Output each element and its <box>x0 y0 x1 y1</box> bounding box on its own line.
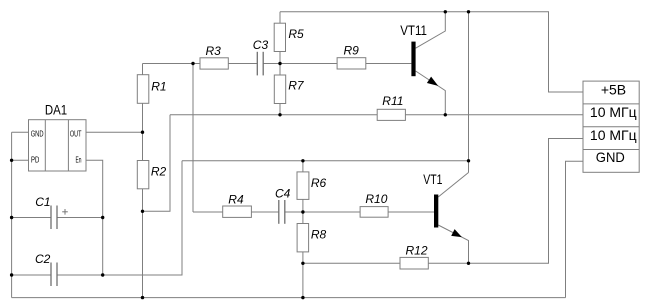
svg-text:PD: PD <box>31 154 39 164</box>
wire VT11 emitter down to 10MHz#1 line <box>416 71 446 115</box>
wire vertical x=193 from top base line to lower base line <box>192 64 194 213</box>
wire C2 right lead to riser x=182 <box>57 161 182 275</box>
C1 polarity plus sign <box>62 209 68 215</box>
svg-text:VT1: VT1 <box>423 172 442 187</box>
svg-text:R7: R7 <box>288 79 305 93</box>
capacitor C3 plates <box>257 52 263 76</box>
resistor R8 <box>297 224 309 252</box>
wire R3 to C3 left plate <box>228 63 257 65</box>
resistor R10 <box>360 207 388 218</box>
svg-text:DA1: DA1 <box>45 102 67 117</box>
node VT1 collector junction <box>467 159 470 162</box>
node R2 bottom junction <box>141 210 144 213</box>
node R8 bottom junction <box>301 262 304 265</box>
wire C4 right plate to R10 <box>285 211 360 213</box>
wire 10MHz#1 line y=114.8 right span to connector <box>405 114 583 116</box>
IC DA1 body <box>29 120 87 171</box>
resistor R1 <box>137 75 149 104</box>
wire C2 left lead <box>12 274 51 276</box>
node R7 bottom junction <box>278 113 281 116</box>
wire DA1 En pin to x=102 rail <box>86 160 103 275</box>
wire lower base line y=212 from x=193 to R4 <box>193 211 223 213</box>
svg-text:GND: GND <box>596 149 625 165</box>
node bottom rail R8 junction <box>301 296 304 299</box>
connector divider 3 <box>583 149 639 151</box>
resistor R12 <box>400 257 428 269</box>
node top rail VT11 collector junction <box>444 10 447 13</box>
transistor VT1 base bar <box>434 195 438 228</box>
node C2 right junction <box>101 273 104 276</box>
connector divider 1 <box>583 103 639 105</box>
svg-text:R8: R8 <box>311 228 327 242</box>
svg-text:R10: R10 <box>365 192 387 206</box>
IC DA1 internal divider right <box>67 120 69 171</box>
wire R12 to 10MHz#2 corner and up to connector <box>428 139 583 264</box>
transistor VT11 base bar <box>411 42 415 77</box>
svg-text:R2: R2 <box>151 165 167 179</box>
wire collector line y=160.8 from riser to VT1 collector node <box>182 160 469 162</box>
transistor VT11 emitter arrow <box>427 77 438 86</box>
wire bottom rail y=297 <box>12 297 566 299</box>
resistor R9 <box>337 58 366 69</box>
wire riser x=170 from 10MHz#1 line down to R2 bottom wire <box>143 115 171 212</box>
node C1 left junction <box>10 216 13 219</box>
wire R6 top lead <box>302 161 304 172</box>
wire DA1 OUT pin to node <box>86 131 143 133</box>
wire R10 to VT1 base <box>388 211 434 213</box>
wire R1 bottom lead to OUT node <box>142 103 144 133</box>
wire DA1 PD pin to left rail <box>12 159 29 161</box>
svg-text:+5В: +5В <box>601 81 626 97</box>
wire R4 to C4 left plate <box>251 211 278 213</box>
svg-text:VT11: VT11 <box>400 23 427 38</box>
svg-text:R11: R11 <box>382 94 403 108</box>
connector divider 2 <box>583 126 639 128</box>
svg-text:R5: R5 <box>288 27 304 41</box>
svg-text:C4: C4 <box>275 186 291 200</box>
wire R1 top lead <box>142 64 144 76</box>
resistor R11 <box>377 109 405 120</box>
node VT11 emitter junction <box>444 113 447 116</box>
resistor R4 <box>223 206 252 217</box>
node C2 left junction <box>10 273 13 276</box>
COMPONENT BODIES <box>29 23 640 269</box>
capacitor C4 plates <box>279 200 285 224</box>
IC DA1 internal divider left <box>44 120 46 171</box>
svg-text:En: En <box>76 154 82 164</box>
wire VT1 emitter down to emitter line <box>438 225 468 263</box>
wire emitter line y=262.2 from R8 node to R12 <box>303 262 400 264</box>
capacitor C2 plates <box>51 263 57 287</box>
node VT1 emitter junction <box>467 262 470 265</box>
resistor R7 <box>274 75 285 104</box>
wire R2 top lead <box>142 132 144 160</box>
node top rail x=468.5 junction <box>467 10 470 13</box>
wire C3 right plate to R9 <box>263 63 337 65</box>
svg-text:R12: R12 <box>406 244 428 258</box>
connector X1 body <box>583 81 639 172</box>
wire R5 bottom lead <box>279 52 281 64</box>
svg-text:C2: C2 <box>35 252 51 266</box>
wire left rail x=11.5 <box>11 132 13 297</box>
svg-text:R4: R4 <box>228 192 244 206</box>
wire vertical VT1 collector feed x=468.5 from top rail down <box>468 12 470 173</box>
wire GND connector feed down to bottom rail <box>566 161 584 297</box>
svg-text:C1: C1 <box>35 195 50 209</box>
wire base line top y=63.5 R1 to R3 <box>143 63 201 65</box>
svg-text:GND: GND <box>31 128 44 138</box>
node OUT junction <box>141 131 144 134</box>
transistor VT1 emitter arrow <box>451 229 462 237</box>
resistor R3 <box>200 58 228 69</box>
wire DA1 GND pin to left rail <box>12 131 29 133</box>
node R5 R7 junction <box>278 62 281 65</box>
svg-text:10 МГц: 10 МГц <box>590 127 637 143</box>
node lower base line junction <box>301 210 304 213</box>
resistor R6 <box>297 172 309 200</box>
capacitor C1 plates <box>51 206 57 230</box>
wire C1 right lead <box>57 217 103 219</box>
node C1 right junction <box>101 216 104 219</box>
resistor R2 <box>137 161 149 189</box>
node bottom rail R2 junction <box>141 296 144 299</box>
svg-text:R9: R9 <box>344 44 360 58</box>
wire R7 bottom lead <box>279 104 281 115</box>
wire R8 bottom lead down to bottom rail <box>302 252 304 298</box>
node PD junction <box>10 159 13 162</box>
svg-text:10 МГц: 10 МГц <box>590 104 637 120</box>
wire R2 bottom lead down to bottom rail <box>142 189 144 298</box>
svg-text:R6: R6 <box>311 176 327 190</box>
wire R9 to VT11 base <box>366 63 412 65</box>
wire R7 top lead <box>279 64 281 76</box>
wire VT1 collector diagonal <box>438 173 468 198</box>
svg-text:OUT: OUT <box>70 128 82 138</box>
wire R5 top lead <box>279 12 281 23</box>
resistor R5 <box>274 23 285 51</box>
svg-text:C3: C3 <box>253 38 269 52</box>
wire R6 bottom lead <box>302 199 304 212</box>
svg-text:R3: R3 <box>206 44 222 58</box>
node top base line x=193 junction <box>191 62 194 65</box>
wire 10MHz#1 line y=114.8 left span <box>170 114 377 116</box>
wire top rail y=11 from R5 top to +5V corner <box>280 12 583 92</box>
wire VT11 collector to top rail <box>416 12 446 48</box>
node R6 top junction <box>301 159 304 162</box>
wire C1 left lead <box>12 217 51 219</box>
wire R8 top lead <box>302 212 304 224</box>
svg-text:R1: R1 <box>151 79 166 93</box>
